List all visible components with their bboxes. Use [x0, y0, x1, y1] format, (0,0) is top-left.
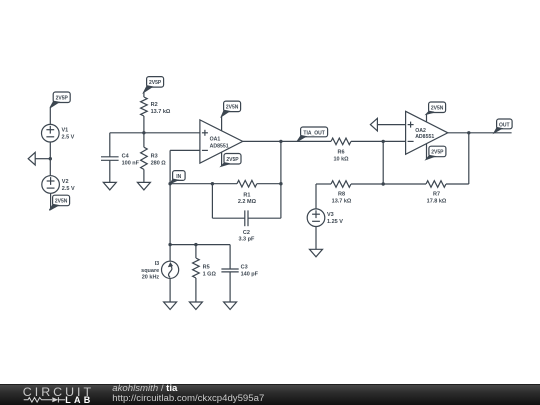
svg-text:20 kHz: 20 kHz — [142, 275, 160, 281]
svg-text:R8: R8 — [338, 191, 345, 197]
svg-text:R5: R5 — [203, 265, 210, 271]
svg-text:2V5N: 2V5N — [431, 105, 444, 111]
svg-text:140 pF: 140 pF — [241, 272, 259, 278]
svg-text:C2: C2 — [243, 230, 250, 236]
svg-text:C3: C3 — [241, 265, 248, 271]
svg-text:R7: R7 — [433, 191, 440, 197]
svg-text:17.8 kΩ: 17.8 kΩ — [427, 199, 447, 205]
svg-text:V3: V3 — [327, 212, 334, 218]
svg-text:R6: R6 — [337, 150, 344, 156]
svg-text:IN: IN — [176, 174, 181, 180]
svg-text:AD8551: AD8551 — [210, 144, 229, 150]
svg-text:square: square — [141, 268, 159, 274]
svg-text:OUT: OUT — [499, 122, 510, 128]
svg-text:2.2 MΩ: 2.2 MΩ — [238, 199, 257, 205]
svg-text:1.25 V: 1.25 V — [327, 219, 343, 225]
svg-text:R2: R2 — [151, 102, 158, 108]
svg-text:V2: V2 — [62, 179, 69, 185]
svg-text:R1: R1 — [243, 193, 250, 199]
svg-text:2.5 V: 2.5 V — [62, 135, 75, 141]
svg-text:I3: I3 — [155, 261, 160, 267]
svg-text:2V5P: 2V5P — [226, 157, 239, 163]
svg-text:10 kΩ: 10 kΩ — [333, 157, 349, 163]
svg-text:3.3 pF: 3.3 pF — [238, 237, 255, 243]
svg-text:280 Ω: 280 Ω — [151, 160, 167, 166]
svg-text:TIA_OUT: TIA_OUT — [303, 130, 324, 136]
svg-text:V1: V1 — [62, 128, 69, 134]
svg-text:1 GΩ: 1 GΩ — [203, 272, 217, 278]
svg-text:100 nF: 100 nF — [122, 160, 140, 166]
svg-text:C4: C4 — [122, 153, 130, 159]
svg-text:AD8551: AD8551 — [415, 134, 434, 140]
svg-text:2V5P: 2V5P — [431, 150, 444, 156]
svg-text:LAB: LAB — [65, 395, 93, 405]
svg-text:2V5P: 2V5P — [149, 80, 162, 86]
svg-text:2V5N: 2V5N — [55, 199, 68, 205]
svg-text:R3: R3 — [151, 153, 158, 159]
svg-text:2.5 V: 2.5 V — [62, 186, 75, 192]
svg-text:13.7 kΩ: 13.7 kΩ — [332, 199, 352, 205]
svg-text:13.7 kΩ: 13.7 kΩ — [151, 109, 171, 115]
svg-text:OA1: OA1 — [210, 136, 221, 142]
svg-text:2V5P: 2V5P — [56, 95, 69, 101]
svg-text:2V5N: 2V5N — [226, 105, 239, 111]
svg-text:OA2: OA2 — [415, 128, 426, 134]
